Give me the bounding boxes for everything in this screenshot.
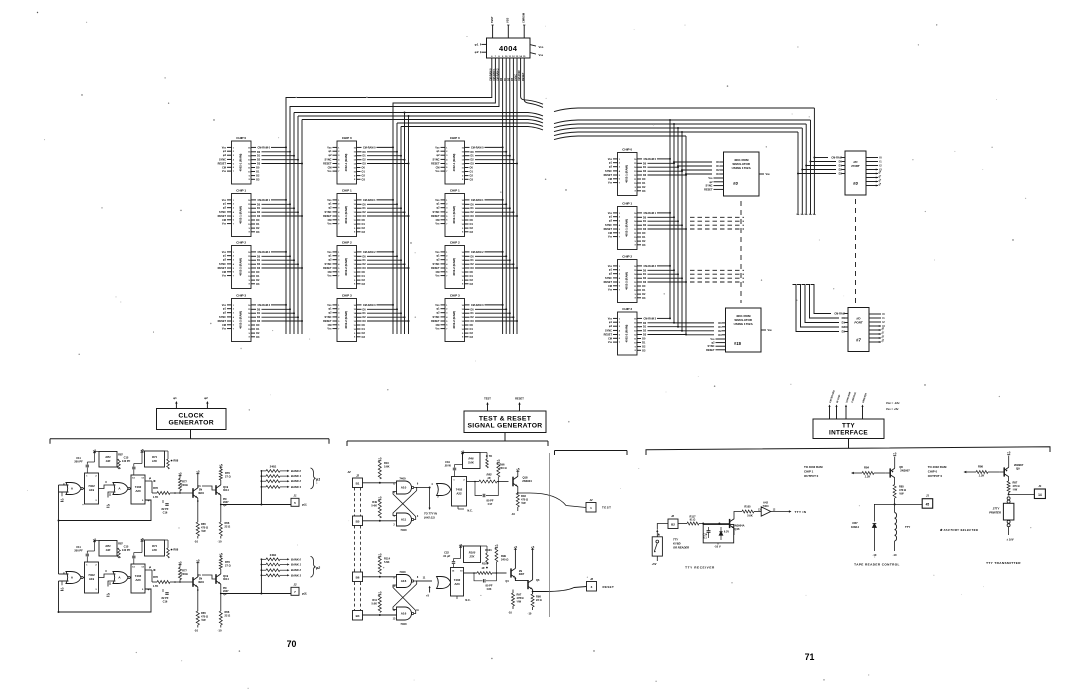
svg-text:+5: +5: [514, 545, 518, 549]
svg-text:RESET: RESET: [431, 215, 440, 218]
svg-text:N.C.: N.C.: [467, 509, 472, 513]
svg-text:B1: B1: [356, 482, 360, 486]
svg-text:+5: +5: [495, 544, 499, 548]
svg-text:½W: ½W: [1013, 488, 1018, 492]
svg-text:#7: #7: [856, 338, 861, 343]
svg-text:VDD: VDD: [435, 199, 440, 202]
svg-text:B4: B4: [356, 614, 360, 618]
svg-text:7400: 7400: [399, 477, 406, 481]
svg-text:RESET: RESET: [323, 320, 332, 323]
svg-text:27 Ω: 27 Ω: [225, 475, 231, 479]
svg-text:-10: -10: [217, 629, 221, 633]
svg-text:φ2: φ2: [316, 566, 320, 570]
svg-text:22 Ω: 22 Ω: [536, 598, 542, 602]
svg-text:RESET: RESET: [431, 163, 440, 166]
svg-text:CHIP 1: CHIP 1: [804, 470, 814, 474]
svg-text:TTY: TTY: [842, 422, 855, 429]
svg-text:240Ω: 240Ω: [181, 572, 187, 576]
svg-text:-10: -10: [528, 612, 532, 616]
svg-text:RESET: RESET: [218, 163, 227, 166]
svg-text:-10: -10: [508, 611, 512, 615]
svg-text:CHIP 3: CHIP 3: [236, 293, 246, 297]
svg-text:CHIP 3: CHIP 3: [342, 293, 352, 297]
svg-text:RESET: RESET: [431, 320, 440, 323]
svg-text:Q9: Q9: [1016, 467, 1020, 471]
svg-text:91 Ω: 91 Ω: [690, 518, 696, 522]
svg-text:SYNC: SYNC: [325, 316, 332, 319]
svg-text:BANK 0: BANK 0: [291, 469, 302, 473]
svg-text:SYNC: SYNC: [325, 211, 332, 214]
svg-text:470 Ω: 470 Ω: [899, 488, 906, 492]
svg-text:R65: R65: [201, 611, 206, 615]
svg-text:C23: C23: [487, 587, 492, 591]
svg-text:R84: R84: [106, 455, 111, 459]
svg-text:BANK 2: BANK 2: [291, 479, 302, 483]
svg-text:J2: J2: [347, 470, 351, 474]
svg-text:470 Ω: 470 Ω: [201, 526, 208, 530]
svg-text:#0: #0: [733, 181, 738, 186]
svg-text:+5: +5: [378, 591, 382, 595]
svg-text:+5: +5: [178, 561, 182, 565]
svg-text:R49: R49: [372, 500, 377, 504]
svg-text:A19: A19: [89, 577, 95, 581]
svg-text:SYNC: SYNC: [325, 158, 332, 161]
svg-text:SYNC: SYNC: [605, 277, 612, 280]
svg-text:TTY IN: TTY IN: [795, 510, 807, 514]
svg-text:TTY: TTY: [673, 538, 678, 542]
svg-text:✱ R88: ✱ R88: [171, 548, 179, 552]
svg-text:CHIP 3: CHIP 3: [450, 293, 460, 297]
svg-text:D0: D0: [716, 160, 720, 164]
svg-text:½W: ½W: [517, 600, 522, 604]
svg-text:4002-1 (RAM): 4002-1 (RAM): [344, 206, 348, 224]
svg-text:R71: R71: [152, 544, 157, 548]
svg-text:A16: A16: [401, 579, 407, 583]
svg-text:4002-1 (RAM): 4002-1 (RAM): [344, 154, 348, 172]
svg-text:SYNC: SYNC: [219, 158, 226, 161]
svg-text:140 PF: 140 PF: [122, 548, 131, 552]
svg-text:CM-RAM 3: CM-RAM 3: [363, 304, 376, 307]
svg-text:A22: A22: [456, 492, 462, 496]
svg-text:C17: C17: [488, 502, 493, 506]
svg-text:(A42:12): (A42:12): [424, 516, 435, 520]
svg-text:R84: R84: [864, 466, 869, 470]
svg-text:CHIP 0: CHIP 0: [342, 136, 352, 140]
svg-text:140 PF: 140 PF: [122, 459, 131, 463]
svg-text:R96: R96: [500, 463, 505, 467]
svg-text:1.7K: 1.7K: [153, 495, 159, 499]
svg-text:CM-RAM 1: CM-RAM 1: [363, 199, 376, 202]
svg-text:TO 4002 RAM: TO 4002 RAM: [804, 465, 823, 469]
svg-text:240Ω: 240Ω: [181, 483, 187, 487]
svg-text:CM: CM: [436, 271, 440, 274]
svg-text:4002-1 (RAM): 4002-1 (RAM): [452, 154, 456, 172]
svg-text:2N: 2N: [199, 488, 202, 492]
svg-text:D1: D1: [716, 164, 720, 168]
svg-text:Q8: Q8: [899, 465, 903, 469]
svg-text:RESET: RESET: [604, 281, 613, 284]
svg-text:CM: CM: [222, 166, 226, 169]
svg-text:R101: R101: [485, 548, 492, 552]
svg-text:#15: #15: [734, 341, 742, 346]
svg-text:D2: D2: [716, 168, 720, 172]
svg-text:CHIP 1: CHIP 1: [342, 188, 352, 192]
svg-text:J1: J1: [926, 494, 930, 498]
svg-text:✱ FACTORY SELECTED: ✱ FACTORY SELECTED: [940, 528, 979, 532]
svg-text:+5: +5: [196, 470, 200, 474]
svg-text:+5: +5: [516, 467, 520, 471]
svg-text:7400: 7400: [399, 570, 406, 574]
svg-text:RESET: RESET: [604, 228, 613, 231]
svg-text:R109: R109: [482, 562, 489, 566]
svg-text:RESET: RESET: [323, 215, 332, 218]
svg-text:A20: A20: [135, 578, 141, 582]
svg-text:TEST & RESET: TEST & RESET: [479, 415, 532, 422]
svg-text:USING 1702A: USING 1702A: [732, 166, 752, 170]
svg-text:4002-2 (RAM): 4002-2 (RAM): [452, 311, 456, 329]
svg-text:R65: R65: [201, 522, 206, 526]
svg-text:B2: B2: [671, 523, 675, 527]
svg-text:φ2: φ2: [475, 50, 479, 54]
svg-text:J2: J2: [589, 498, 593, 502]
svg-text:φ1: φ1: [173, 396, 177, 400]
svg-text:R77: R77: [182, 569, 187, 573]
svg-text:CM-RAM 2: CM-RAM 2: [363, 251, 376, 254]
svg-text:2TTY: 2TTY: [992, 507, 1000, 511]
svg-text:3904: 3904: [198, 491, 204, 495]
svg-text:5-6K: 5-6K: [371, 504, 377, 508]
svg-text:SYNC: SYNC: [433, 158, 440, 161]
svg-text:+5: +5: [426, 594, 430, 598]
svg-text:CM-RAM 1: CM-RAM 1: [644, 212, 657, 215]
svg-text:OR READER: OR READER: [673, 546, 689, 550]
svg-text:CM-RAM 3: CM-RAM 3: [644, 317, 657, 320]
svg-text:VDD: VDD: [222, 251, 227, 254]
svg-text:2N3907: 2N3907: [1014, 463, 1024, 467]
svg-text:D3: D3: [716, 172, 720, 176]
svg-text:R87: R87: [1013, 481, 1018, 485]
svg-text:R85: R85: [899, 485, 904, 489]
svg-text:71: 71: [805, 652, 815, 662]
svg-text:470 Ω: 470 Ω: [1013, 484, 1020, 488]
svg-text:TTY: TTY: [905, 525, 910, 529]
svg-text:USING 1702A: USING 1702A: [734, 322, 754, 326]
svg-text:GENERATOR: GENERATOR: [168, 420, 214, 427]
svg-text:TTY TRANSMITTER: TTY TRANSMITTER: [986, 561, 1021, 565]
svg-text:R105: R105: [744, 505, 751, 509]
svg-text:C11: C11: [76, 545, 81, 549]
svg-text:CM: CM: [608, 232, 612, 235]
svg-text:4002-1 (RAM): 4002-1 (RAM): [452, 206, 456, 224]
svg-text:CM: CM: [328, 166, 332, 169]
svg-text:½W: ½W: [899, 492, 904, 496]
svg-text:φ1L: φ1L: [302, 503, 308, 507]
svg-text:CHIP 2: CHIP 2: [236, 240, 246, 244]
svg-text:TO 4002 RAM: TO 4002 RAM: [928, 465, 947, 469]
svg-text:R78: R78: [153, 486, 158, 490]
svg-text:-10: -10: [194, 540, 198, 544]
svg-text:R66: R66: [225, 521, 230, 525]
svg-text:BANK 3: BANK 3: [291, 573, 302, 577]
svg-text:2N3904: 2N3904: [522, 479, 532, 483]
svg-text:4002-2 (RAM): 4002-2 (RAM): [344, 311, 348, 329]
svg-text:SYNC: SYNC: [605, 329, 612, 332]
svg-text:CHIP 2: CHIP 2: [342, 240, 352, 244]
svg-text:#0: #0: [853, 181, 858, 186]
svg-text:C15: C15: [124, 456, 129, 460]
svg-text:R84: R84: [106, 544, 111, 548]
svg-text:RESET: RESET: [704, 188, 713, 191]
svg-text:CMROM: CMROM: [521, 13, 525, 23]
svg-text:INTERFACE: INTERFACE: [829, 429, 868, 436]
svg-text:4004: 4004: [499, 44, 518, 53]
svg-text:-10: -10: [872, 553, 876, 557]
svg-text:70: 70: [287, 639, 297, 649]
svg-text:7404: 7404: [763, 504, 769, 508]
svg-text:RESET: RESET: [323, 163, 332, 166]
svg-text:82 PF: 82 PF: [162, 507, 169, 511]
svg-text:+5: +5: [893, 452, 897, 456]
svg-text:+5: +5: [378, 553, 382, 557]
svg-text:R11: R11: [372, 598, 377, 602]
svg-text:CM: CM: [608, 285, 612, 288]
svg-text:SYNC: SYNC: [325, 263, 332, 266]
svg-text:3904: 3904: [198, 580, 204, 584]
svg-text:RESET: RESET: [603, 585, 615, 589]
svg-text:C19: C19: [445, 460, 450, 464]
svg-text:D3: D3: [718, 333, 722, 337]
svg-text:4002-1 (RAM): 4002-1 (RAM): [239, 206, 243, 224]
svg-text:80 PF: 80 PF: [487, 499, 494, 503]
svg-text:SYNC: SYNC: [219, 316, 226, 319]
svg-text:4002-1 (RAM): 4002-1 (RAM): [625, 219, 629, 237]
svg-text:CHIP 0: CHIP 0: [450, 136, 460, 140]
svg-text:R46: R46: [469, 457, 474, 461]
svg-text:RESET: RESET: [604, 334, 613, 337]
svg-text:CHIP 0: CHIP 0: [236, 136, 246, 140]
svg-text:CHIP 2: CHIP 2: [450, 240, 460, 244]
svg-text:CM-RAM: CM-RAM: [834, 313, 844, 316]
svg-text:CM-RAM 3: CM-RAM 3: [471, 304, 484, 307]
svg-text:TAPE READER CONTROL: TAPE READER CONTROL: [854, 563, 900, 567]
svg-text:RESET: RESET: [431, 267, 440, 270]
svg-text:D1: D1: [718, 325, 722, 329]
svg-text:4002-1 (RAM): 4002-1 (RAM): [625, 165, 629, 183]
svg-text:RESET: RESET: [218, 267, 227, 270]
svg-text:R114: R114: [384, 557, 391, 561]
svg-text:CM-RAM 0: CM-RAM 0: [644, 158, 657, 161]
svg-text:200 PF: 200 PF: [74, 549, 83, 553]
svg-text:+5: +5: [106, 503, 110, 507]
svg-text:CM: CM: [328, 271, 332, 274]
svg-text:VDD: VDD: [327, 251, 332, 254]
svg-text:CM: CM: [436, 219, 440, 222]
svg-text:.05 W: .05 W: [444, 464, 451, 468]
svg-text:RESET: RESET: [604, 174, 613, 177]
svg-text:C22: C22: [444, 551, 449, 555]
svg-text:SYNC: SYNC: [605, 170, 612, 173]
svg-text:CM-RAM 2: CM-RAM 2: [471, 251, 484, 254]
svg-text:SYNC: SYNC: [706, 185, 713, 188]
svg-text:SYNC: SYNC: [433, 316, 440, 319]
svg-text:J2: J2: [356, 474, 360, 478]
svg-text:OUTPUT 0: OUTPUT 0: [928, 474, 943, 478]
svg-text:A10: A10: [401, 486, 407, 490]
svg-text:CHIP 3: CHIP 3: [622, 307, 632, 311]
svg-text:A23: A23: [454, 582, 460, 586]
svg-text:.01 μF: .01 μF: [443, 554, 451, 558]
svg-text:240Ω: 240Ω: [270, 553, 276, 557]
svg-text:+5: +5: [60, 497, 64, 501]
svg-text:CM-RAM 3: CM-RAM 3: [258, 304, 271, 307]
svg-text:B5: B5: [356, 520, 360, 524]
svg-text:C16: C16: [163, 600, 168, 604]
svg-text:2N: 2N: [199, 577, 202, 581]
svg-text:SYNC: SYNC: [708, 345, 715, 348]
svg-text:CM: CM: [222, 219, 226, 222]
svg-text:B6: B6: [356, 576, 360, 580]
svg-text:CM: CM: [608, 178, 612, 181]
svg-text:-10: -10: [893, 553, 897, 557]
svg-text:240 Ω: 240 Ω: [499, 466, 507, 470]
svg-text:+5: +5: [1007, 451, 1011, 455]
svg-text:4002-2 (RAM): 4002-2 (RAM): [239, 311, 243, 329]
svg-text:RESET: RESET: [515, 397, 524, 401]
svg-text:240 Ω: 240 Ω: [501, 558, 509, 562]
svg-text:A19: A19: [89, 488, 95, 492]
svg-text:OUTPUT 0: OUTPUT 0: [804, 474, 819, 478]
svg-text:CHIP 1: CHIP 1: [622, 201, 632, 205]
svg-text:+5: +5: [497, 459, 501, 463]
svg-text:4002-2 (RAM): 4002-2 (RAM): [625, 325, 629, 343]
svg-text:7400: 7400: [400, 622, 407, 626]
svg-text:J2: J2: [671, 514, 675, 518]
svg-text:RESET: RESET: [218, 320, 227, 323]
svg-text:470 Ω: 470 Ω: [201, 615, 208, 619]
svg-text:RESET: RESET: [706, 349, 715, 352]
svg-text:TO TTY IN: TO TTY IN: [424, 512, 437, 516]
svg-text:R71: R71: [152, 455, 157, 459]
svg-text:4002-2 (RAM): 4002-2 (RAM): [344, 258, 348, 276]
svg-text:VDD: VDD: [327, 304, 332, 307]
svg-text:14: 14: [1038, 493, 1042, 497]
svg-text:J1: J1: [293, 494, 297, 498]
svg-text:✱ R88: ✱ R88: [171, 459, 179, 463]
svg-text:BANK 1: BANK 1: [291, 563, 302, 567]
svg-text:R10: R10: [384, 461, 389, 465]
svg-text:BANK 3: BANK 3: [291, 485, 302, 489]
svg-text:CM-RAM 2: CM-RAM 2: [644, 265, 657, 268]
svg-text:CM: CM: [328, 324, 332, 327]
svg-text:SYNC: SYNC: [433, 263, 440, 266]
svg-text:CM: CM: [328, 219, 332, 222]
svg-text:22 Ω: 22 Ω: [225, 525, 231, 529]
svg-text:CHIP 2: CHIP 2: [622, 254, 632, 258]
svg-text:R86: R86: [978, 465, 983, 469]
svg-text:R48: R48: [521, 494, 526, 498]
svg-text:D2: D2: [718, 329, 722, 333]
svg-text:TEST: TEST: [602, 506, 611, 510]
svg-text:SYNC: SYNC: [433, 211, 440, 214]
svg-text:CM: CM: [222, 271, 226, 274]
svg-text:C16: C16: [163, 511, 168, 515]
svg-text:4002-2 (RAM): 4002-2 (RAM): [452, 258, 456, 276]
svg-text:J2: J2: [590, 577, 594, 581]
svg-text:PRINTER: PRINTER: [989, 511, 1001, 515]
svg-text:Q18: Q18: [522, 476, 528, 480]
svg-text:BANK 1: BANK 1: [291, 474, 302, 478]
svg-text:22 Ω: 22 Ω: [225, 614, 231, 618]
svg-text:TTY RECEIVER: TTY RECEIVER: [685, 566, 715, 570]
svg-text:200 PF: 200 PF: [74, 460, 83, 464]
svg-text:RESET: RESET: [218, 215, 227, 218]
svg-text:+5V: +5V: [652, 562, 657, 566]
svg-text:3014: 3014: [223, 488, 229, 492]
svg-text:φ1: φ1: [475, 42, 479, 46]
svg-text:VDD: VDD: [608, 317, 613, 320]
svg-text:J2: J2: [293, 583, 297, 587]
svg-text:CM: CM: [436, 324, 440, 327]
svg-text:5.6K: 5.6K: [372, 602, 378, 606]
svg-text:6.2V: 6.2V: [724, 531, 729, 534]
svg-text:R99: R99: [501, 554, 506, 558]
svg-text:-10: -10: [194, 629, 198, 633]
svg-text:2N3907: 2N3907: [900, 469, 910, 473]
svg-text:27 Ω: 27 Ω: [225, 564, 231, 568]
svg-text:PORT: PORT: [854, 321, 863, 325]
svg-text:RESET: RESET: [323, 267, 332, 270]
svg-text:A11: A11: [401, 518, 407, 522]
svg-text:CM-RAM 0: CM-RAM 0: [471, 146, 484, 149]
svg-text:VSS: VSS: [506, 18, 510, 23]
svg-text:5.6K: 5.6K: [384, 465, 390, 469]
svg-text:+5: +5: [196, 559, 200, 563]
svg-text:± 10V: ± 10V: [1006, 538, 1013, 542]
svg-text:CM-RAM 2: CM-RAM 2: [258, 251, 271, 254]
svg-text:3907: 3907: [519, 573, 525, 576]
svg-text:5.6K: 5.6K: [747, 514, 753, 518]
svg-text:4002-2 (RAM): 4002-2 (RAM): [625, 272, 629, 290]
svg-text:CLOCK: CLOCK: [178, 413, 204, 420]
svg-text:+5: +5: [60, 586, 64, 590]
svg-text:VDD: VDD: [222, 199, 227, 202]
svg-text:R76: R76: [225, 560, 230, 564]
svg-text:SYNC: SYNC: [219, 211, 226, 214]
svg-text:R76: R76: [225, 471, 230, 475]
svg-text:CR7: CR7: [852, 521, 858, 525]
svg-text:SYNC: SYNC: [605, 224, 612, 227]
svg-text:φ2L: φ2L: [302, 592, 308, 596]
svg-text:+5: +5: [178, 472, 182, 476]
svg-text:+5: +5: [531, 545, 535, 549]
svg-text:470 Ω: 470 Ω: [517, 596, 524, 600]
svg-text:-10: -10: [217, 540, 221, 544]
svg-text:TEST: TEST: [484, 397, 491, 401]
svg-text:1.7K: 1.7K: [153, 584, 159, 588]
svg-text:VDD: VDD: [435, 251, 440, 254]
svg-text:CM: CM: [436, 166, 440, 169]
svg-text:CM-RAM 1: CM-RAM 1: [258, 199, 271, 202]
svg-text:4002-1 (RAM): 4002-1 (RAM): [239, 154, 243, 172]
svg-text:φ2: φ2: [204, 396, 208, 400]
svg-text:VDD: VDD: [327, 199, 332, 202]
svg-text:CHIP 1: CHIP 1: [450, 188, 460, 192]
svg-text:CM-RAM: CM-RAM: [831, 157, 841, 160]
svg-text:470 Ω: 470 Ω: [521, 498, 528, 502]
svg-text:80 PF: 80 PF: [486, 584, 493, 588]
svg-text:5.6K: 5.6K: [384, 560, 390, 564]
svg-text:R100: R100: [469, 551, 476, 555]
